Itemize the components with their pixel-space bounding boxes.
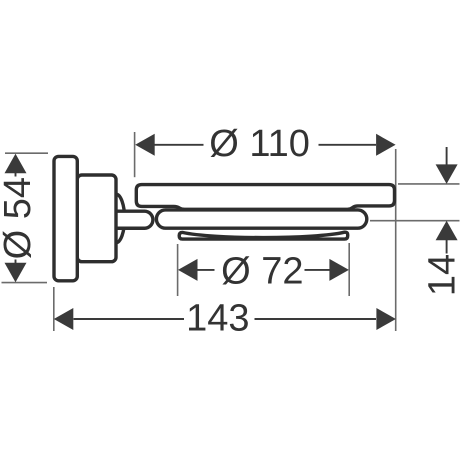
arrow 14 down [436,164,458,184]
dimension line Ø110 left segment [155,144,204,146]
arrow 143 left [54,308,74,330]
arrow Ø110 right [376,134,396,156]
dimension line Ø72 right segment [305,269,330,271]
mount cone [116,194,125,242]
svg-text:Ø 54: Ø 54 [0,177,39,259]
arrow Ø54 bottom [5,263,27,283]
dimension shaft 14 upper [446,147,448,166]
arrow 14 up [436,221,458,241]
dimension line Ø72 left segment [198,269,215,271]
stem [113,211,153,228]
dimension line Ø54 bottom segment [15,260,17,265]
svg-text:14: 14 [422,254,460,296]
svg-text:Ø 110: Ø 110 [209,123,310,165]
wall flange [54,156,77,280]
dimension line Ø54 top segment [15,172,17,177]
extension line 143 left [53,287,55,331]
dimension line Ø110 right segment [319,144,377,146]
dimension line 143 left segment [74,318,185,320]
dish top plate [136,185,394,210]
extension line Ø72 left [177,244,179,296]
arrow 143 right [376,308,396,330]
dish bottom plate [179,232,348,239]
svg-text:143: 143 [186,298,249,340]
dimension line 143 right segment [255,318,377,320]
arrow Ø72 left [178,259,198,281]
arrow Ø110 left [135,134,155,156]
arrow Ø72 right [329,259,349,281]
dish middle plate [156,210,366,228]
extension line Ø72 right [348,243,350,296]
extension line Ø54 top [5,152,48,154]
extension line Ø110 left [134,132,136,177]
extension line Ø54 bottom [2,282,48,284]
dimension shaft 14 lower [446,239,448,254]
arrow Ø54 top [5,154,27,174]
extension line 14 lower [370,220,460,222]
extension line right (shared Ø110 / 143) [395,149,397,331]
escutcheon block [77,175,116,262]
extension line 14 upper [398,183,460,185]
svg-text:Ø 72: Ø 72 [221,250,303,292]
